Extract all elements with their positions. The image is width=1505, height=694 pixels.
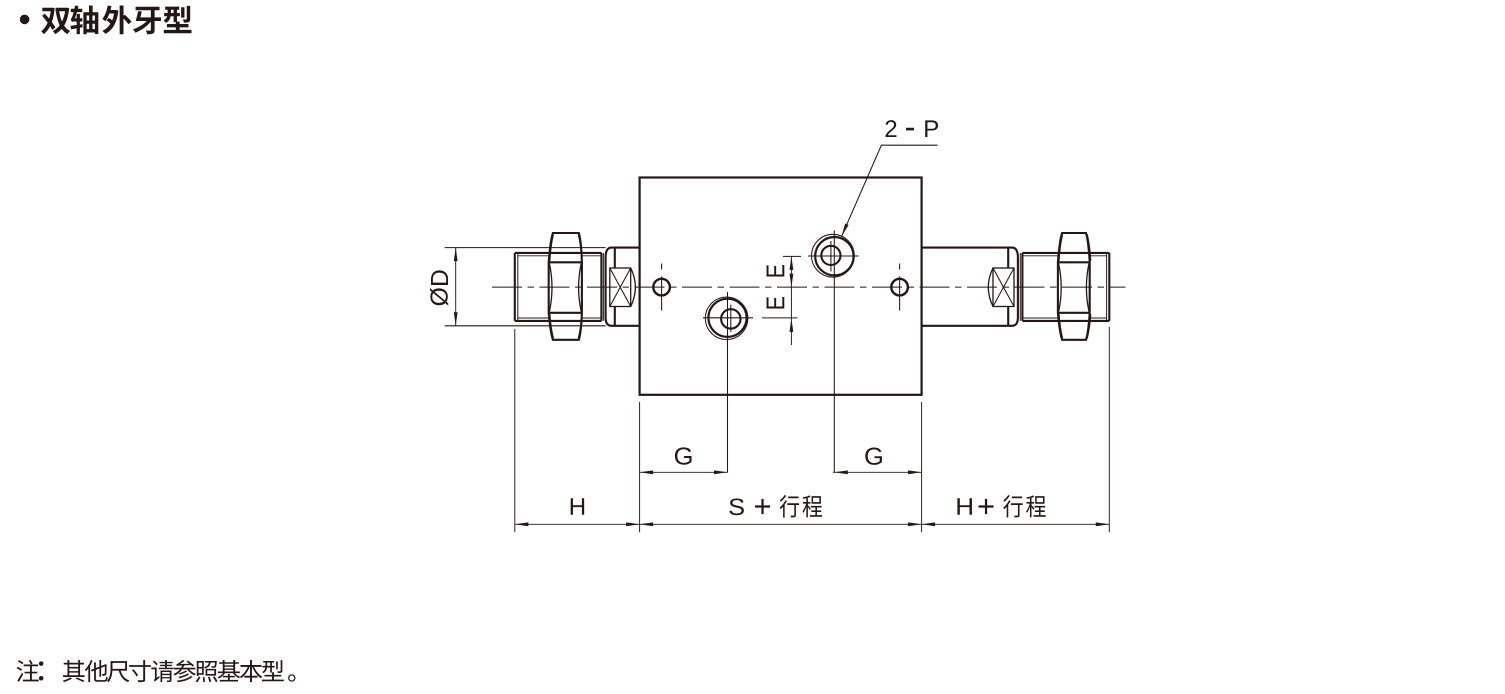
- label E lower: [767, 297, 785, 308]
- note text 注：其他尺寸请参照基本型。: [17, 660, 296, 682]
- right thread chamfer line: [1106, 253, 1108, 320]
- label G left: [675, 447, 692, 464]
- right rod shoulder: [1012, 248, 1018, 326]
- S+stroke arrowheads: [640, 522, 654, 526]
- H dimension line: [515, 523, 640, 525]
- extension line body left: [639, 402, 641, 532]
- left rod shoulder: [606, 248, 612, 326]
- right lock nut: [1058, 233, 1090, 340]
- right rod thread outline: [1022, 253, 1109, 321]
- right hole center mark: [899, 264, 901, 311]
- G right dimension line: [833, 471, 922, 473]
- right nut hex edges: [1058, 262, 1090, 313]
- E dimension line: [790, 256, 792, 345]
- G left dimension line: [640, 471, 728, 473]
- right boss face: [1007, 248, 1009, 326]
- right mounting hole: [891, 279, 908, 296]
- bottom port bore circle: [721, 309, 740, 328]
- right wrench-flat cross: [993, 268, 1014, 307]
- top port bore circle: [821, 246, 840, 265]
- G left arrowheads: [640, 470, 654, 474]
- H+stroke arrowheads: [922, 522, 936, 526]
- S+stroke dimension line: [640, 523, 922, 525]
- OD extension lines: [445, 248, 606, 326]
- 2-P leader line: [842, 145, 938, 236]
- title bullet: [20, 15, 30, 25]
- right thread root lines: [1022, 256, 1106, 318]
- label S + 行程: [729, 495, 822, 517]
- extension line body right: [921, 402, 923, 532]
- left wrench-flat cross: [610, 268, 631, 307]
- 2-P leader arrowhead: [842, 224, 849, 237]
- G right arrowheads: [834, 470, 848, 474]
- H+stroke dimension line: [922, 523, 1110, 525]
- label OD: [430, 270, 448, 305]
- right wrench-flat box: [993, 268, 1014, 307]
- cylinder body: [640, 178, 922, 395]
- right rod dome arc: [988, 268, 993, 307]
- bottom port crosshair: [703, 292, 753, 472]
- left nut facet arcs: [549, 235, 582, 339]
- top port bore center mark: [830, 241, 832, 272]
- bottom port chamfer circle: [705, 297, 748, 340]
- left thread chamfer line: [517, 253, 519, 320]
- left piston boss edges: [612, 248, 640, 326]
- top port chamfer circle: [812, 234, 855, 277]
- right piston boss edges: [922, 248, 1012, 326]
- left rod thread outline: [515, 253, 602, 321]
- OD arrowheads: [454, 248, 458, 262]
- left nut hex edges: [549, 262, 582, 313]
- H arrowheads: [515, 522, 529, 526]
- top port crosshair: [808, 231, 859, 473]
- right rod relief groove: [1019, 253, 1021, 321]
- left lock nut: [549, 233, 582, 340]
- OD dimension line: [455, 248, 457, 326]
- left mounting hole: [653, 279, 670, 296]
- label 2 - P: [886, 120, 939, 137]
- left wrench-flat box: [610, 268, 631, 307]
- bottom port outer circle: [708, 299, 746, 337]
- extension line left rod tip: [514, 329, 516, 532]
- left rod dome arc: [631, 268, 636, 307]
- right nut facet arcs: [1059, 235, 1091, 339]
- main horizontal centerline: [492, 286, 1125, 288]
- left rod relief groove: [602, 253, 604, 321]
- label E upper: [767, 265, 785, 276]
- E dimension ticks: [762, 256, 801, 318]
- label G right: [865, 448, 882, 465]
- title text 双轴外牙型: [41, 5, 191, 34]
- bottom port bore center mark: [730, 305, 732, 332]
- left boss face: [614, 248, 616, 326]
- left thread root lines: [518, 256, 602, 318]
- label H: [571, 498, 584, 515]
- extension line right rod tip: [1108, 327, 1110, 533]
- label H + 行程: [957, 495, 1045, 517]
- top port outer circle: [815, 237, 853, 275]
- left hole center mark: [661, 264, 663, 311]
- E arrowheads: [790, 256, 794, 270]
